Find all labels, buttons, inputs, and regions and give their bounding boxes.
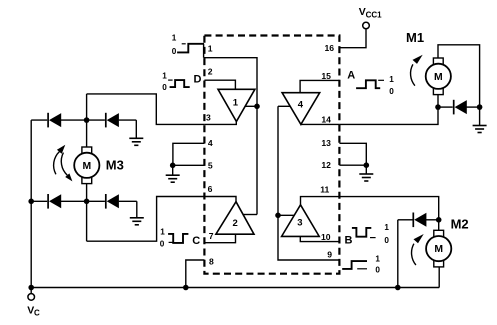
svg-text:C: C — [192, 235, 200, 247]
ground pins 12-13 — [359, 165, 373, 181]
svg-text:10: 10 — [321, 232, 331, 242]
M2 rotation arrow — [412, 234, 424, 265]
motor M1 — [426, 58, 451, 95]
node C waveform: notch annotation at pin 7 — [160, 228, 200, 249]
svg-text:0: 0 — [389, 87, 394, 96]
svg-text:0: 0 — [375, 266, 380, 275]
wire M2 diode branch to VC rail — [397, 220, 399, 288]
pin 12 label — [321, 160, 331, 170]
svg-text:1: 1 — [160, 228, 165, 237]
svg-text:1: 1 — [233, 97, 239, 108]
wire pin8 to VC rail — [186, 260, 205, 288]
svg-text:1: 1 — [375, 255, 380, 264]
svg-text:3: 3 — [297, 218, 302, 229]
svg-text:14: 14 — [321, 115, 331, 125]
pin 6 label — [208, 184, 213, 194]
diode M1 flyback — [454, 100, 467, 115]
wire pin4 to ground — [173, 143, 205, 165]
driver 2 (buffer, points up) — [216, 202, 254, 235]
pin 13 label — [321, 138, 331, 148]
label M3 — [106, 157, 124, 172]
junction VC rail / lower diode row — [28, 199, 34, 205]
wire M1 diode row — [438, 106, 480, 108]
driver 4 (buffer, points down) — [282, 93, 320, 125]
svg-text:4: 4 — [208, 138, 213, 148]
net label VCC1 — [359, 6, 382, 20]
svg-text:M3: M3 — [106, 157, 124, 172]
wire driver4 output to pin 14 — [301, 123, 340, 125]
terminal VC — [28, 288, 35, 301]
pin 1 step waveform annotation — [172, 33, 204, 56]
pin 16 label — [325, 43, 335, 53]
M3 rotation arrows — [54, 145, 73, 182]
wire enable tap to driver 2 — [243, 214, 257, 216]
pin 4 label — [208, 138, 213, 148]
node A waveform: pulse annotation at pin 15 — [347, 70, 394, 96]
wire M3 lower diode row — [31, 200, 137, 202]
wire pin15 to driver 4 input — [300, 80, 339, 92]
wire VC left rail — [30, 120, 32, 287]
junction pin8-VC rail — [183, 285, 189, 291]
IC dashed package outline — [204, 36, 339, 274]
wire enable tap to driver 4 — [278, 105, 290, 107]
pin 9 step waveform annotation — [342, 255, 380, 275]
wire enable tap to driver 3 — [278, 214, 294, 216]
ground M3 upper — [129, 120, 143, 145]
junction pins 4-5 ground node — [170, 163, 176, 169]
svg-text:8: 8 — [209, 257, 214, 267]
driver 3 (buffer, points up) — [282, 205, 320, 237]
wire pin11 external to M2 — [339, 197, 438, 230]
pin 7 label — [209, 231, 214, 241]
ground pins 4-5 — [166, 165, 180, 182]
wire pin7 to driver 2 input — [204, 234, 235, 243]
wire M1 top to ground rail — [438, 45, 480, 126]
wire pin1 internal enable run 1,2EN — [204, 44, 257, 215]
svg-text:2: 2 — [208, 66, 213, 76]
wire M2 diode row — [398, 219, 439, 221]
wire M3 upper diode row — [31, 119, 136, 121]
pin 15 label — [321, 71, 331, 81]
wire pin13 to ground — [339, 143, 366, 165]
wire pin16 to VCC1 terminal — [339, 29, 366, 48]
wire pin5 to ground — [172, 164, 204, 166]
ground M1 — [473, 126, 487, 133]
junction pins 12-13 ground node — [364, 162, 370, 168]
svg-text:9: 9 — [327, 249, 332, 259]
pin 8 label — [209, 257, 214, 267]
wire pin2 to driver 1 input — [204, 80, 235, 89]
node B waveform: notch annotation at pin 10 — [345, 223, 390, 247]
wire pin6 external to M3 bottom node — [87, 197, 205, 242]
svg-text:1: 1 — [172, 33, 177, 42]
diode M3 lower-right — [106, 194, 119, 209]
junction M3 top node — [84, 117, 90, 123]
pin 9 label — [327, 249, 332, 259]
svg-text:5: 5 — [208, 160, 213, 170]
wire pin6 to driver 2 output — [204, 197, 236, 202]
junction M3 bottom node — [84, 199, 90, 205]
diode M3 upper-right — [106, 113, 119, 128]
svg-text:1: 1 — [384, 223, 389, 232]
ground M3 lower — [130, 201, 144, 225]
junction M1 diode node — [435, 104, 441, 110]
svg-text:0: 0 — [384, 236, 389, 245]
junction 1,2EN node — [254, 104, 260, 110]
svg-text:1: 1 — [389, 75, 394, 84]
svg-text:1: 1 — [162, 72, 167, 81]
wire pin12 to ground — [339, 164, 366, 166]
junction M2 diode node — [436, 217, 442, 223]
svg-text:0: 0 — [172, 47, 177, 56]
wire enable tap to driver 1 — [245, 105, 257, 107]
svg-text:0: 0 — [162, 83, 167, 92]
svg-text:M2: M2 — [451, 217, 469, 232]
svg-text:M1: M1 — [406, 30, 424, 45]
junction M2 branch on VC rail — [395, 285, 401, 291]
node D waveform: pulse annotation at pin 2 — [162, 72, 201, 93]
wire VC bottom rail — [31, 287, 439, 289]
diode M3 upper-left — [48, 113, 61, 128]
pin 11 label — [320, 184, 329, 194]
pin 2 label — [208, 66, 213, 76]
svg-text:B: B — [345, 234, 353, 246]
motor M3 — [74, 147, 99, 184]
svg-text:7: 7 — [209, 231, 214, 241]
svg-text:3: 3 — [206, 113, 211, 123]
wire pin11 to driver 3 output — [301, 197, 340, 205]
wire M3 motor column — [86, 94, 88, 241]
junction M1 ground rail — [477, 104, 483, 110]
driver 1 (buffer, points down) — [218, 89, 255, 121]
diode M2 flyback — [413, 213, 426, 228]
wire M2 bottom to VC rail — [438, 267, 440, 287]
pin 5 label — [208, 160, 213, 170]
svg-text:13: 13 — [321, 138, 331, 148]
svg-text:A: A — [347, 70, 355, 82]
diode M3 lower-left — [48, 194, 61, 209]
svg-text:D: D — [194, 74, 202, 86]
terminal VCC1 — [363, 22, 370, 29]
label M1 — [406, 30, 424, 45]
svg-text:15: 15 — [321, 71, 331, 81]
label M2 — [451, 217, 469, 232]
svg-text:CC1: CC1 — [366, 11, 383, 20]
svg-text:11: 11 — [320, 184, 329, 194]
pin 14 label — [321, 115, 331, 125]
motor M2 — [426, 230, 451, 267]
wire driver1 output to pin 3 — [204, 121, 236, 124]
svg-text:12: 12 — [321, 160, 331, 170]
junction VC rail left — [28, 285, 34, 291]
wire pin14 external to M1 — [339, 95, 438, 125]
wire pin3 external to M3 top node — [87, 94, 205, 125]
wire pin9 internal enable run 3,4EN — [278, 106, 339, 260]
svg-text:C: C — [34, 308, 40, 317]
svg-text:6: 6 — [208, 184, 213, 194]
svg-text:0: 0 — [160, 240, 165, 249]
svg-text:1: 1 — [208, 43, 213, 53]
svg-text:4: 4 — [298, 99, 304, 110]
wire pin10 to driver 3 input — [300, 236, 339, 241]
junction 3,4EN node — [275, 213, 281, 219]
svg-text:16: 16 — [325, 43, 335, 53]
M1 rotation arrow — [411, 55, 423, 86]
svg-text:2: 2 — [233, 218, 238, 229]
pin 1 label — [208, 43, 213, 53]
pin 10 label — [321, 232, 331, 242]
net label VC — [27, 304, 40, 317]
pin 3 label — [206, 113, 211, 123]
